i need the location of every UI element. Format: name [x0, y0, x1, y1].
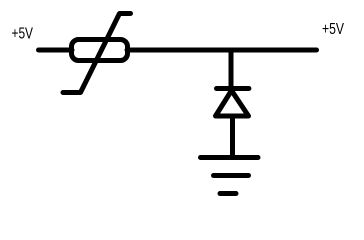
- ground symbol: [201, 158, 259, 194]
- wire: left lead into fuse: [39, 48, 73, 53]
- svg-text:+5V: +5V: [322, 21, 345, 38]
- svg-text:+5V: +5V: [12, 26, 34, 43]
- wire: +5V rail from fuse to right: [127, 48, 317, 53]
- wire: diode anode down to ground: [230, 117, 235, 157]
- wire: rail down to diode cathode: [229, 50, 234, 88]
- resettable fuse F1 diagonal strike: [63, 14, 131, 93]
- resettable fuse F1 body: [72, 40, 128, 61]
- diode D1 triangle (anode): [216, 91, 249, 117]
- diode D1 cathode bar: [217, 86, 249, 91]
